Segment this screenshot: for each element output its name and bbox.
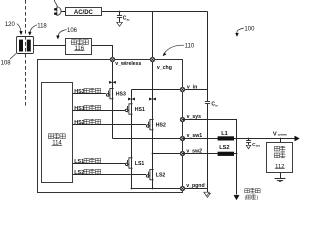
svg-text:in: in <box>215 103 218 107</box>
svg-text:LS2: LS2 <box>74 170 84 176</box>
svg-text:v_in: v_in <box>187 84 197 90</box>
svg-text:AC/DC: AC/DC <box>74 10 94 16</box>
svg-text:HS2: HS2 <box>156 123 166 129</box>
svg-text:LS2: LS2 <box>156 173 166 179</box>
svg-text:sys: sys <box>256 145 261 148</box>
svg-text:v_wireless: v_wireless <box>115 61 141 67</box>
svg-text:v_chg: v_chg <box>157 65 172 71</box>
svg-text:L1: L1 <box>221 131 228 137</box>
svg-text:V: V <box>273 131 277 137</box>
svg-text:116: 116 <box>75 46 85 52</box>
svg-text:112: 112 <box>275 164 284 170</box>
svg-text:106: 106 <box>67 28 78 34</box>
svg-text:LS2: LS2 <box>219 145 229 151</box>
svg-text:HS1: HS1 <box>135 107 145 113</box>
svg-text:HS3: HS3 <box>74 89 85 95</box>
svg-text:HS1: HS1 <box>74 106 85 112</box>
svg-text:110: 110 <box>185 44 195 50</box>
svg-text:118: 118 <box>37 24 47 30</box>
svg-text:ac: ac <box>127 18 131 22</box>
svg-text:LS1: LS1 <box>74 159 84 165</box>
svg-text:108: 108 <box>1 60 12 66</box>
svg-text:v_pgnd: v_pgnd <box>186 183 204 189</box>
svg-text:system: system <box>278 133 288 137</box>
svg-text:LS1: LS1 <box>135 161 145 167</box>
svg-text:100: 100 <box>244 27 255 33</box>
svg-text:120: 120 <box>5 22 16 28</box>
svg-text:HS3: HS3 <box>116 92 126 98</box>
svg-text:HS2: HS2 <box>74 120 85 126</box>
